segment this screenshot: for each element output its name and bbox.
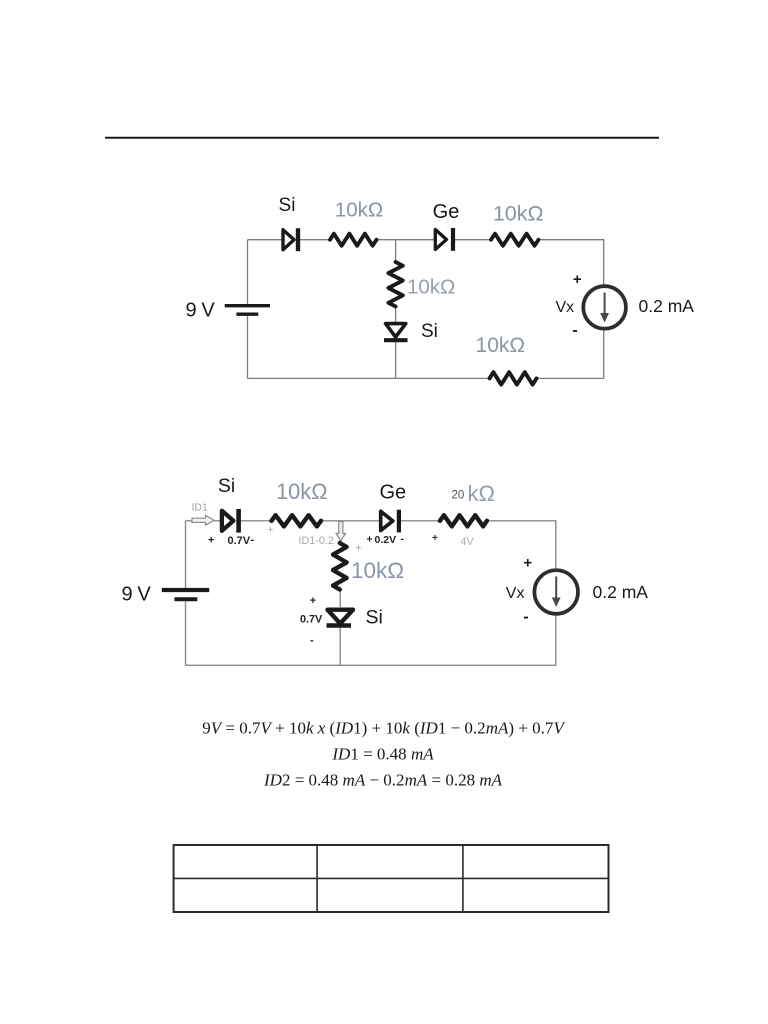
label + (left of R5 node) [267,524,273,536]
label Vx (I2) [506,585,525,602]
svg-text:-: - [572,322,577,339]
svg-text:Si: Si [421,321,438,342]
svg-text:ID1 = 0.48 mA: ID1 = 0.48 mA [331,745,434,764]
label 9 V (B1) [186,300,216,322]
wire: C2 middle branch R7 to diode D6 [339,589,341,607]
label + (I2) [523,555,532,572]
svg-text:-: - [251,534,255,546]
label - (I2) [523,609,528,626]
svg-text:kΩ: kΩ [468,481,495,506]
svg-text:0.7V: 0.7V [228,535,251,547]
wire: C1 top-right corner drop to current source [538,240,604,287]
svg-text:0.7V: 0.7V [300,613,323,625]
resistor R4 10k (circuit 1 bottom) [490,372,537,384]
svg-text:-: - [310,635,314,647]
label + 0.2V - (D5 voltage) [367,533,405,546]
wire: C1 left upper (to battery) [247,240,249,305]
wire: C1 resistor R1 to diode D2 (through node A) [376,239,434,241]
svg-text:ID2 = 0.48 mA − 0.2mA = 0.28 m: ID2 = 0.48 mA − 0.2mA = 0.28 mA [263,771,503,790]
label Si (D6) [366,606,383,628]
label 10kOhm (R1) [335,199,383,222]
svg-text:+: + [267,524,273,536]
svg-text:+: + [523,555,532,572]
wire: C1 right below current source [603,329,605,379]
label 0.2 mA (I2) [593,582,649,602]
label + (top of R7) [356,542,362,554]
label 10kOhm (R5) [276,479,327,504]
label Ge (D5) [379,481,406,503]
svg-text:10kΩ: 10kΩ [493,202,544,226]
svg-text:+: + [432,532,438,544]
svg-text:0.2V: 0.2V [375,534,397,546]
label 10kOhm (R4) [476,334,526,357]
svg-text:9V = 0.7V + 10k x (ID1) + 10k: 9V = 0.7V + 10k x (ID1) + 10k (ID1 − 0.2… [202,719,566,738]
label Ge (D2) [433,201,460,223]
label 4V (R6 voltage) [461,536,475,548]
svg-text:Si: Si [366,606,383,628]
label 0.7V (D6 voltage) [300,613,323,625]
svg-text:ID1-0.2: ID1-0.2 [299,535,334,547]
svg-text:+: + [367,534,373,546]
svg-text:20: 20 [452,489,465,501]
wire: C2 bottom [186,664,556,666]
label 20 kOhm (R6) [452,481,495,506]
wire: C2 right below current source [555,614,557,666]
wire: C1 middle branch lower (D3 to bottom wire) [395,341,397,378]
label Si (D4) [218,475,235,497]
label - (D6 cathode) [310,635,314,647]
diode D6 Si (circuit 2 middle, pointing down) [327,610,354,626]
diode D4 Si (circuit 2, horizontal) [222,509,239,533]
wire: C1 diode D1 to resistor R1 [299,239,331,241]
label + (D6 anode) [310,595,316,607]
equation line 1 [202,719,566,738]
svg-text:ID1: ID1 [192,502,209,514]
resistor R5 10k (circuit 2 top left) [272,515,322,526]
svg-text:4V: 4V [461,536,475,548]
svg-text:10kΩ: 10kΩ [476,334,526,357]
svg-text:Vx: Vx [556,299,575,316]
wire: C1 diode D2 to resistor R2 [454,239,492,241]
wire: C2 left lower (battery to bottom) [185,599,187,665]
label 10kOhm (R7) [351,558,404,583]
svg-text:9 V: 9 V [122,584,152,606]
label ID1-0.2 (branch current) [299,535,334,547]
horizontal rule [105,137,659,139]
wire: C1 bottom right segment [536,377,604,379]
resistor R6 20k (circuit 2 top right) [440,515,487,526]
label + (left of R6) [432,532,438,544]
svg-text:10kΩ: 10kΩ [351,558,404,583]
equation line 3 [263,771,503,790]
svg-text:-: - [401,533,405,545]
label - (I1) [572,322,577,339]
label + (I1) [573,271,582,288]
current arrow ID1 (block arrow on wire) [192,515,214,525]
svg-text:10kΩ: 10kΩ [407,276,455,299]
answer table (3 columns x 2 rows) [174,845,609,912]
svg-text:0.2 mA: 0.2 mA [593,582,649,602]
label Si (D3) [421,321,438,342]
svg-text:Si: Si [218,475,235,497]
label 10kOhm (R3) [407,276,455,299]
svg-text:9 V: 9 V [186,300,216,322]
diode D3 Si (circuit 1 middle, pointing down) [384,324,408,341]
svg-text:+: + [208,535,214,547]
label + 0.7V - (D4 voltage) [208,534,255,547]
label ID1 (net current) [192,502,209,514]
resistor R1 10k (circuit 1 top) [330,234,377,246]
svg-text:0.2 mA: 0.2 mA [639,296,695,316]
wire: C2 top-right corner drop to current source [487,521,556,571]
wire: C2 left upper (to battery) [185,521,187,589]
label Vx (I1) [556,299,575,316]
svg-text:+: + [310,595,316,607]
label Si (D1) [279,195,296,216]
wire: C1 left lower (battery to bottom) [247,315,249,379]
resistor R7 10k (circuit 2 middle vertical) [333,543,347,590]
svg-text:Vx: Vx [506,585,525,602]
resistor R3 10k (circuit 1 middle vertical) [388,262,402,307]
svg-text:10kΩ: 10kΩ [276,479,327,504]
diode D2 Ge (circuit 1, horizontal) [435,228,453,251]
battery B1 9V (circuit 1) [225,306,270,315]
current arrow ID1-0.2 (block arrow down at node B) [336,522,346,541]
resistor R2 10k (circuit 1 top right) [491,234,539,246]
wire: C2 middle branch lower (D6 to bottom wire) [339,627,341,665]
label 9 V (B2) [122,584,152,606]
svg-text:Si: Si [279,195,296,216]
diode D5 Ge (circuit 2, horizontal) [381,510,399,533]
svg-text:-: - [523,609,528,626]
wire: C1 top-left segment [248,239,283,241]
label 10kOhm (R2) [493,202,544,226]
wire: C1 bottom left segment [248,377,491,379]
svg-text:Ge: Ge [379,481,406,503]
svg-text:10kΩ: 10kΩ [335,199,383,222]
svg-text:Ge: Ge [433,201,460,223]
label 0.2 mA (I1) [639,296,695,316]
wire: C1 middle branch R3 to diode D3 [395,306,397,323]
current source I2 0.2mA (circuit 2) [534,570,578,614]
current source I1 0.2mA (circuit 1) [583,286,626,329]
wire: C2 middle branch upper (node B to R7) [339,521,341,544]
wire: C2 diode D4 to resistor R5 [240,520,272,522]
wire: C2 resistor R5 to diode D5 (through node B) [321,520,380,522]
wire: C2 top-left segment [186,520,221,522]
svg-text:+: + [573,271,582,288]
equation line 2 [331,745,434,764]
svg-text:+: + [356,542,362,554]
wire: C2 diode D5 to resistor R6 [399,520,441,522]
wire: C1 middle branch upper (node A down to R3) [395,240,397,263]
battery B2 9V (circuit 2) [162,590,209,599]
diode D1 Si (circuit 1, horizontal) [283,228,298,251]
